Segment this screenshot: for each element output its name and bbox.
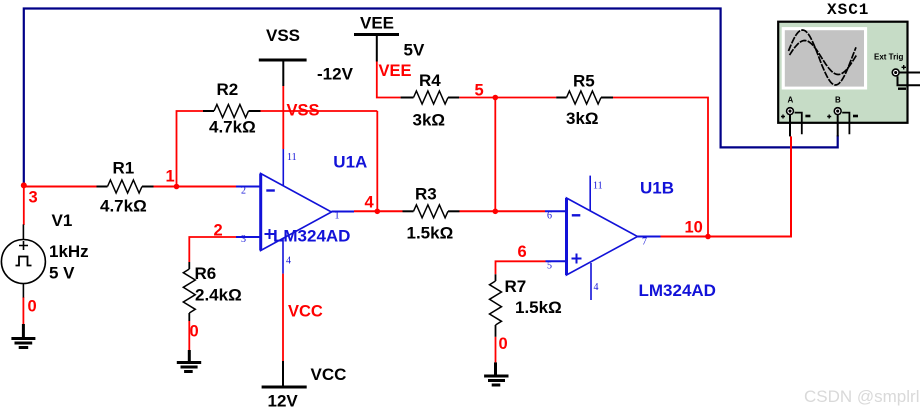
ground (R7) bbox=[484, 362, 508, 385]
source V1 bbox=[1, 224, 45, 297]
svg-text:4.7kΩ: 4.7kΩ bbox=[100, 197, 147, 216]
svg-text:3kΩ: 3kΩ bbox=[566, 109, 599, 128]
svg-text:U1B: U1B bbox=[640, 179, 674, 198]
svg-text:0: 0 bbox=[190, 323, 199, 341]
wire R4 right to node 5 to R5 left bbox=[459, 97, 556, 99]
wire node 4: U1A output to R3 bbox=[354, 210, 403, 212]
svg-text:VSS: VSS bbox=[266, 26, 300, 45]
svg-text:4: 4 bbox=[286, 256, 291, 267]
svg-text:VCC: VCC bbox=[311, 365, 347, 384]
wire node 1 up to R2 left bbox=[177, 111, 204, 187]
svg-text:3: 3 bbox=[29, 189, 38, 207]
wire V1 bottom red to ground bbox=[22, 297, 24, 324]
svg-text:11: 11 bbox=[593, 181, 603, 192]
node 5 junction bbox=[493, 95, 499, 101]
node 4 junction bbox=[375, 209, 381, 215]
svg-text:1kHz: 1kHz bbox=[49, 242, 89, 261]
wire node 6: R7 top to U1B non-inverting input bbox=[496, 261, 546, 274]
resistor R1 bbox=[97, 180, 154, 193]
svg-text:4.7kΩ: 4.7kΩ bbox=[209, 118, 256, 137]
wire R7 bottom red to ground bbox=[495, 337, 497, 363]
wire R6 bottom red to ground bbox=[188, 321, 190, 350]
wire R3 right to U1B inverting input bbox=[460, 210, 546, 212]
svg-text:CSDN @smplrl: CSDN @smplrl bbox=[804, 387, 919, 406]
svg-text:R1: R1 bbox=[113, 159, 135, 178]
svg-text:2: 2 bbox=[241, 186, 246, 197]
svg-text:Ext Trig: Ext Trig bbox=[874, 53, 903, 62]
svg-text:VEE: VEE bbox=[379, 62, 412, 80]
scope terminal B bbox=[827, 107, 858, 136]
svg-text:A: A bbox=[788, 96, 794, 105]
op-amp U1A bbox=[236, 149, 354, 274]
svg-text:3kΩ: 3kΩ bbox=[413, 111, 446, 130]
resistor R5 bbox=[556, 91, 613, 104]
svg-text:6: 6 bbox=[518, 243, 527, 261]
svg-text:4: 4 bbox=[365, 194, 375, 212]
resistor R4 bbox=[401, 91, 460, 104]
wire node 3 to V1 top bbox=[23, 185, 25, 225]
svg-text:5: 5 bbox=[475, 82, 484, 100]
svg-text:LM324AD: LM324AD bbox=[273, 227, 350, 246]
svg-text:11: 11 bbox=[287, 152, 297, 163]
svg-text:VCC: VCC bbox=[288, 303, 323, 321]
resistor R7 bbox=[490, 274, 502, 337]
svg-text:B: B bbox=[835, 96, 841, 105]
svg-text:10: 10 bbox=[685, 219, 703, 237]
ground (R6) bbox=[177, 350, 201, 372]
wire VSS rail to U1A pin 11 bbox=[282, 86, 284, 149]
svg-text:5V: 5V bbox=[404, 41, 425, 60]
svg-text:VEE: VEE bbox=[360, 14, 394, 33]
svg-text:1: 1 bbox=[335, 211, 340, 222]
svg-text:7: 7 bbox=[642, 237, 647, 248]
svg-text:1.5kΩ: 1.5kΩ bbox=[515, 298, 562, 317]
svg-text:R3: R3 bbox=[415, 185, 437, 204]
resistor R3 bbox=[403, 205, 460, 218]
svg-text:12V: 12V bbox=[268, 392, 299, 410]
wire node 2: R6 top to U1A non-inverting input bbox=[189, 237, 237, 262]
scope terminal A bbox=[781, 107, 810, 136]
svg-text:6: 6 bbox=[547, 211, 552, 222]
wire node 1: R1 to U1A inverting input bbox=[154, 186, 237, 188]
svg-text:5: 5 bbox=[547, 261, 552, 272]
wire VEE to R4 bbox=[377, 62, 401, 98]
svg-text:V1: V1 bbox=[52, 211, 73, 230]
svg-text:0: 0 bbox=[499, 335, 508, 353]
power VSS symbol bbox=[259, 60, 307, 86]
node 3 junction bbox=[21, 182, 27, 188]
svg-text:R7: R7 bbox=[505, 277, 527, 296]
power VCC symbol bbox=[262, 361, 307, 387]
wire R2 right to feedback corner bbox=[261, 110, 378, 112]
wire node 10: U1B output to scope A bbox=[661, 136, 792, 236]
svg-text:U1A: U1A bbox=[333, 153, 367, 172]
ground (V1) bbox=[11, 324, 35, 348]
resistor R2 bbox=[203, 105, 261, 118]
wire R5 right to corner down to node 10 bbox=[613, 98, 708, 237]
scope ext trig terminal bbox=[892, 65, 920, 89]
svg-text:5 V: 5 V bbox=[49, 264, 75, 283]
svg-text:R5: R5 bbox=[573, 72, 595, 91]
op-amp U1B bbox=[545, 176, 661, 300]
svg-text:0: 0 bbox=[28, 298, 37, 316]
svg-text:LM324AD: LM324AD bbox=[639, 281, 716, 300]
wire VCC rail to U1A pin 4 bbox=[282, 274, 284, 361]
svg-text:VSS: VSS bbox=[287, 102, 320, 120]
node 1 junction bbox=[174, 184, 180, 190]
svg-text:R6: R6 bbox=[195, 264, 217, 283]
svg-text:2.4kΩ: 2.4kΩ bbox=[195, 286, 242, 305]
svg-text:1: 1 bbox=[166, 168, 175, 186]
wire feedback vertical to node 4 bbox=[376, 111, 378, 211]
resistor R6 bbox=[183, 262, 195, 321]
svg-text:4: 4 bbox=[594, 282, 599, 293]
svg-text:R2: R2 bbox=[217, 80, 239, 99]
wire blue scope channel B loop bbox=[24, 9, 838, 186]
power VEE symbol bbox=[354, 35, 399, 62]
wire node 5 vertical down to R3 output line bbox=[494, 98, 496, 212]
wire node 3 horizontal to R1 bbox=[24, 186, 97, 188]
node 10 junction bbox=[705, 234, 711, 240]
svg-text:-12V: -12V bbox=[317, 65, 354, 84]
oscilloscope XSC1 bbox=[778, 22, 907, 123]
svg-text:1.5kΩ: 1.5kΩ bbox=[407, 224, 454, 243]
svg-text:2: 2 bbox=[214, 222, 223, 240]
svg-text:R4: R4 bbox=[419, 71, 441, 90]
node 5/R3 junction bbox=[493, 209, 499, 215]
svg-text:3: 3 bbox=[241, 234, 246, 245]
svg-text:XSC1: XSC1 bbox=[827, 1, 869, 19]
